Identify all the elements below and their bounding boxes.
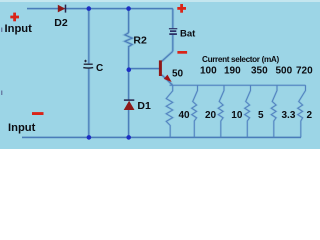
input minus (red) [32,112,44,115]
junction dot top B [126,6,131,11]
svg-text:D1: D1 [137,100,151,112]
svg-text:20: 20 [205,110,217,121]
svg-text:190: 190 [224,66,241,77]
svg-text:Bat: Bat [180,28,196,39]
svg-text:3.3: 3.3 [282,110,296,121]
junction dot base node [127,67,132,72]
svg-text:R2: R2 [133,35,147,47]
svg-text:5: 5 [258,110,264,121]
edge artifact dash upper-left [1,28,2,33]
svg-text:500: 500 [276,66,293,77]
svg-text:100: 100 [200,66,217,77]
transistor Q1 emitter arrow [164,75,174,84]
svg-text:350: 350 [251,66,268,77]
battery Bat [169,29,177,35]
input plus (red) [10,13,19,22]
svg-text:50: 50 [172,68,184,79]
svg-text:Input: Input [8,122,36,134]
wire halo (soft edge) [22,9,301,138]
svg-text:2: 2 [307,110,313,121]
diode D1 [124,101,135,110]
diode D2 [58,5,65,13]
svg-text:Input: Input [5,23,33,35]
svg-text:Current selector (mA): Current selector (mA) [202,55,279,64]
wire core [22,9,301,138]
transistor Q1 base bar [159,60,162,76]
svg-text:D2: D2 [54,17,68,29]
capacitor C [83,60,93,68]
bank wire core [166,85,305,137]
battery minus (red) [177,51,187,54]
svg-text:10: 10 [231,110,243,121]
svg-text:C: C [96,63,103,74]
svg-text:720: 720 [296,66,313,77]
junction dot top A [87,6,92,11]
junction dot bottom B [126,135,131,140]
svg-text:40: 40 [179,110,191,121]
junction dot bottom A [87,135,92,140]
edge artifact dash mid-left [1,91,2,96]
top light band [0,0,320,2]
battery plus (red) [177,4,186,13]
bank wire halo [166,85,305,137]
